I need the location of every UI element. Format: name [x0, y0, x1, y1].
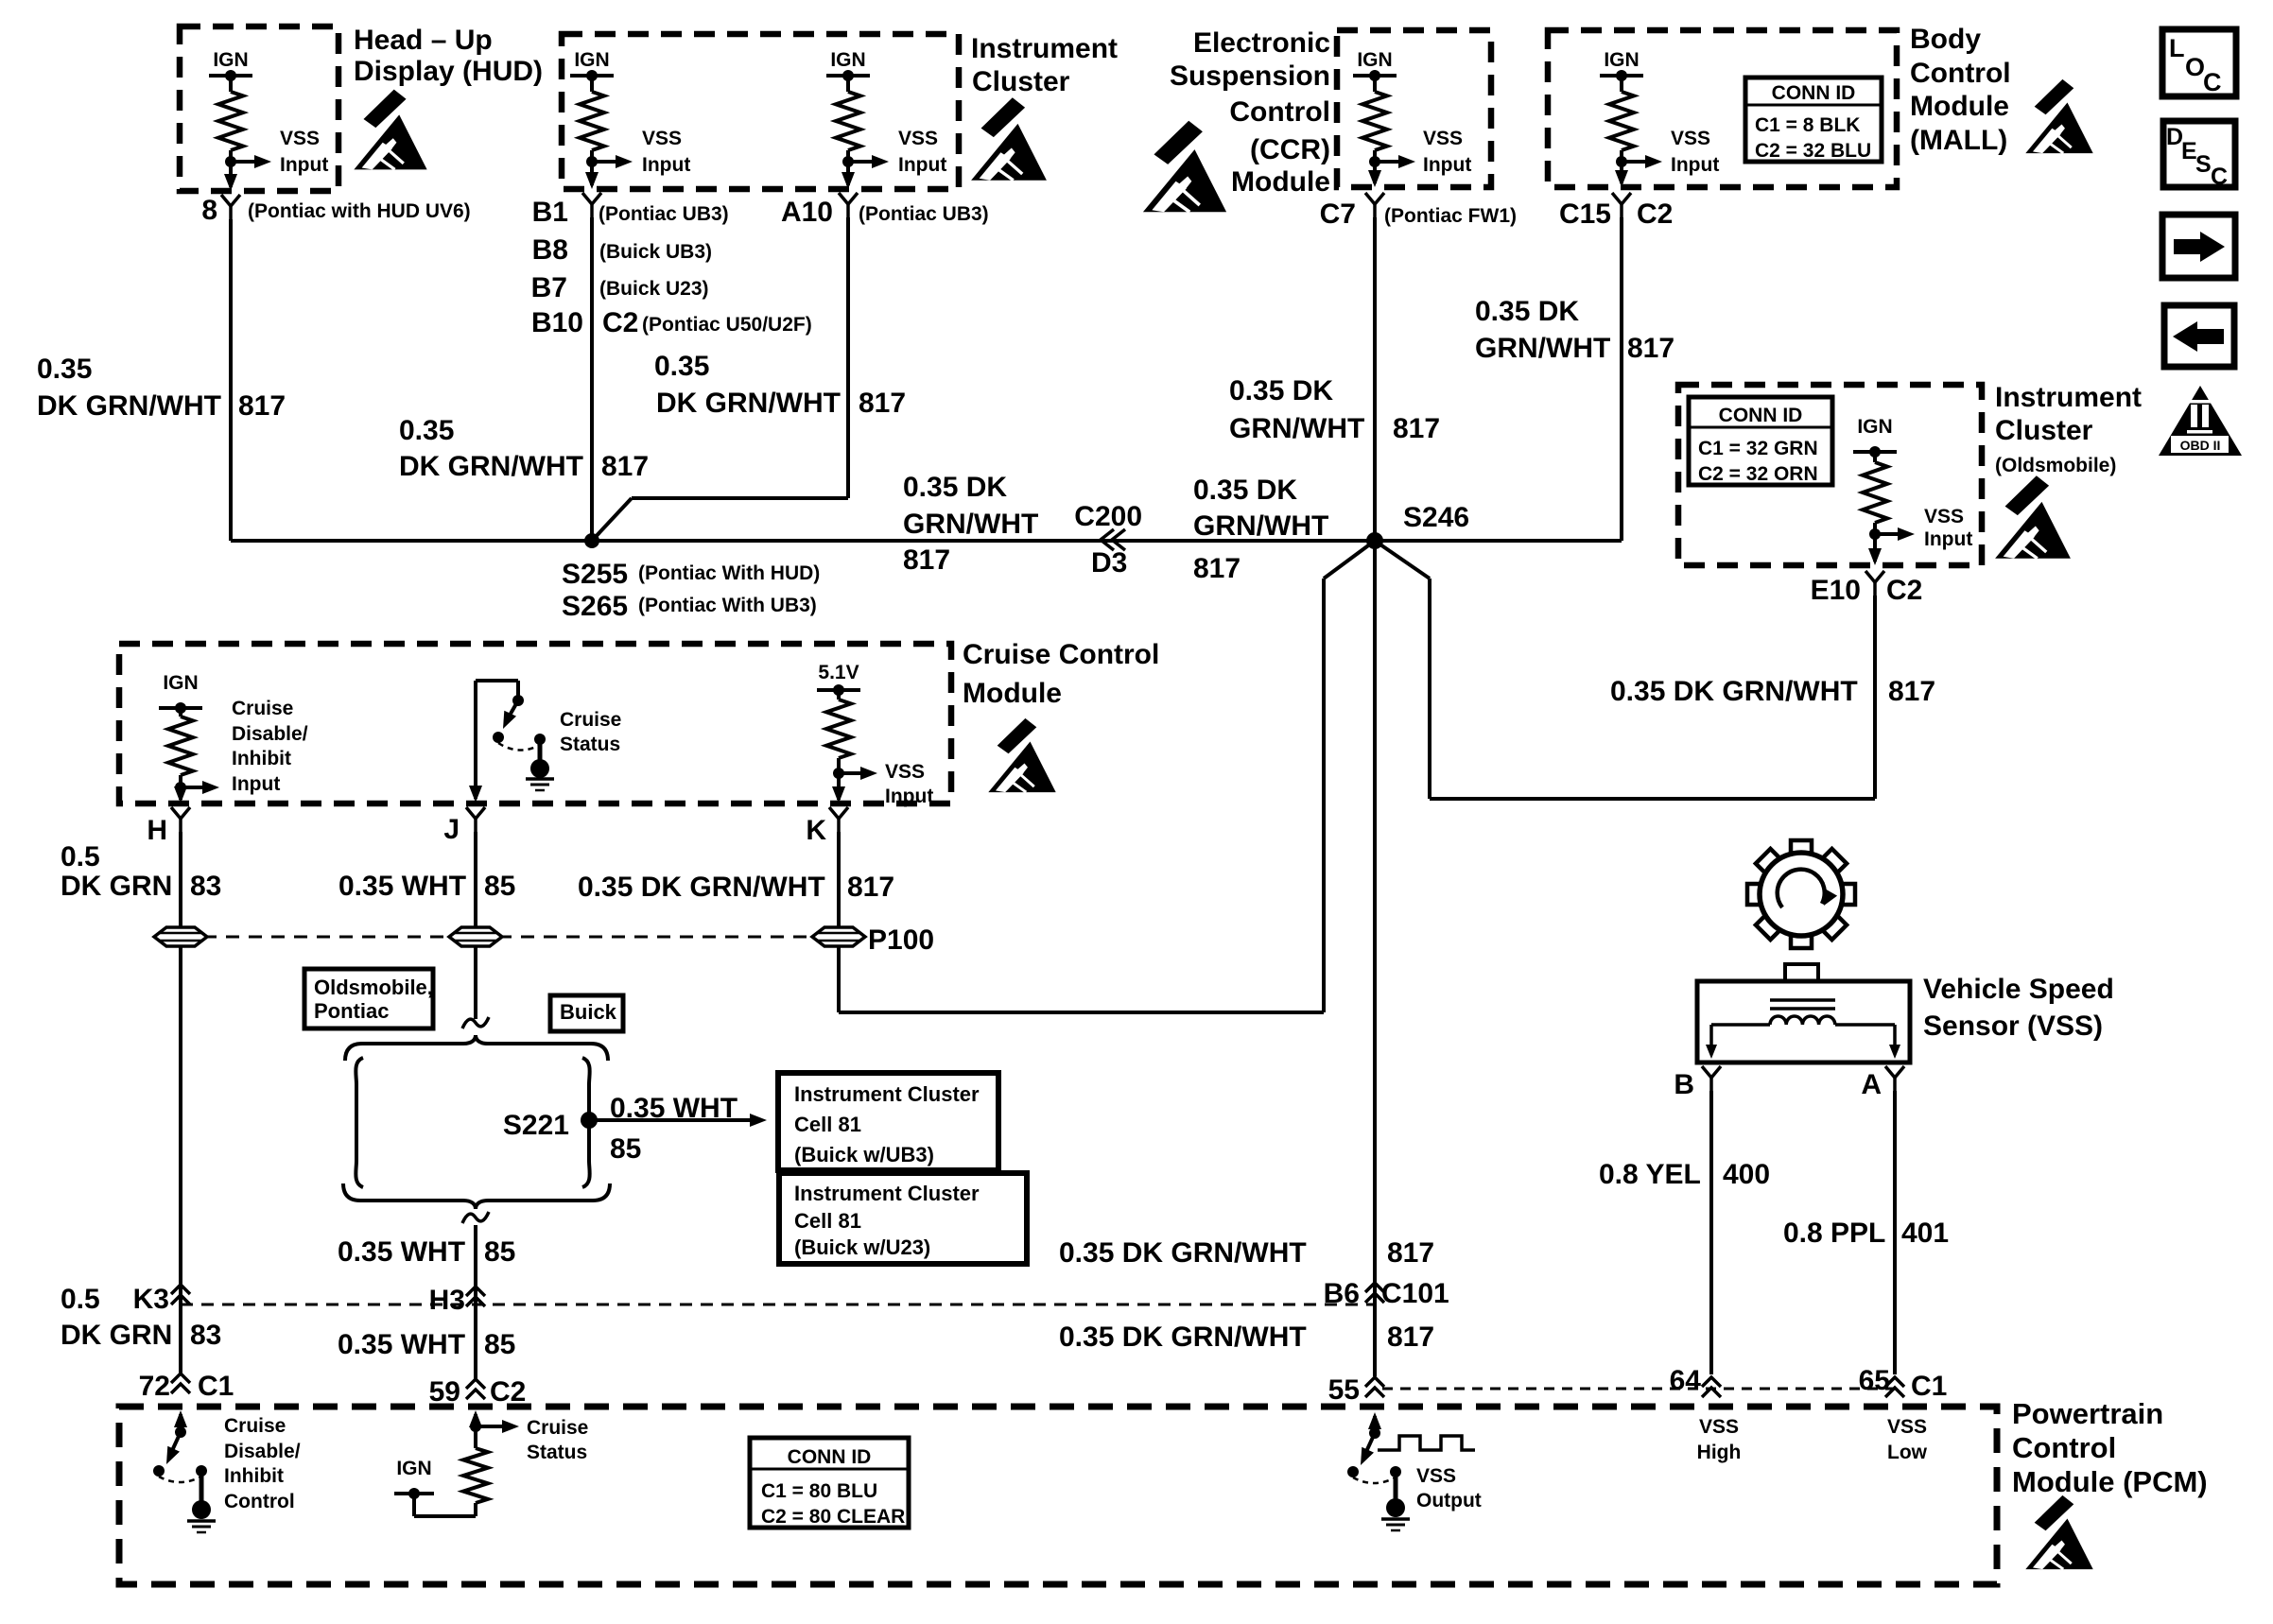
CONN ID table (PCM): C1 = 80 BLU, C2 = 80 CLEAR [750, 1438, 909, 1528]
label box Buick [550, 995, 623, 1031]
svg-text:B6: B6 [1324, 1278, 1360, 1309]
svg-text:72: 72 [139, 1371, 170, 1402]
svg-text:C2: C2 [1637, 199, 1673, 230]
svg-text:Body: Body [1910, 24, 1981, 55]
svg-text:VSS: VSS [1699, 1416, 1739, 1438]
svg-text:H3: H3 [429, 1285, 465, 1316]
svg-text:817: 817 [903, 544, 950, 576]
svg-text:(CCR): (CCR) [1250, 134, 1330, 165]
icon box LOC [2162, 29, 2236, 96]
svg-text:0.35 DK GRN/WHT: 0.35 DK GRN/WHT [578, 872, 825, 903]
svg-text:401: 401 [1901, 1218, 1949, 1249]
svg-text:C1 = 8 BLK: C1 = 8 BLK [1755, 114, 1860, 136]
svg-text:Cruise: Cruise [224, 1415, 286, 1437]
svg-text:Cell 81: Cell 81 [794, 1113, 861, 1136]
module box Electronic Suspension Control (CCR), dashed [1337, 30, 1491, 187]
svg-text:817: 817 [601, 451, 649, 482]
svg-text:C: C [2211, 164, 2228, 190]
svg-text:0.35 DK: 0.35 DK [1475, 296, 1579, 327]
svg-text:C1: C1 [1911, 1371, 1947, 1402]
svg-text:DK GRN: DK GRN [61, 871, 172, 902]
svg-text:Module: Module [1910, 91, 2009, 122]
svg-text:0.8 YEL: 0.8 YEL [1599, 1159, 1701, 1190]
svg-text:Input: Input [232, 773, 280, 795]
ESD symbol (Olds IC) [1995, 475, 2071, 558]
svg-text:(Pontiac UB3): (Pontiac UB3) [599, 203, 729, 225]
ESD symbol (CCM) [988, 718, 1055, 792]
svg-text:(Pontiac With HUD): (Pontiac With HUD) [638, 562, 820, 584]
svg-text:VSS: VSS [1887, 1416, 1927, 1438]
svg-text:Inhibit: Inhibit [224, 1465, 284, 1487]
svg-text:85: 85 [484, 1236, 515, 1268]
label box Oldsmobile, Pontiac [304, 969, 433, 1028]
svg-text:IGN: IGN [213, 49, 248, 71]
icon box arrow left [2164, 305, 2234, 367]
svg-text:C2 = 32 BLU: C2 = 32 BLU [1755, 140, 1871, 162]
svg-text:B7: B7 [531, 272, 567, 303]
square wave symbol (VSS Output) [1378, 1436, 1475, 1450]
brace right column (Buick path) [582, 1058, 590, 1187]
svg-text:Control: Control [224, 1491, 295, 1512]
label box Instrument Cluster Cell 81 (Buick w/UB3) [778, 1073, 998, 1170]
svg-text:S255: S255 [562, 559, 628, 590]
svg-text:C2 = 80 CLEAR: C2 = 80 CLEAR [761, 1506, 905, 1528]
svg-text:C15: C15 [1559, 199, 1611, 230]
svg-text:C2 = 32 ORN: C2 = 32 ORN [1698, 463, 1818, 485]
module box Instrument Cluster (Oldsmobile), dashed [1678, 385, 1982, 565]
svg-text:(Pontiac UB3): (Pontiac UB3) [859, 203, 989, 225]
svg-text:B1: B1 [532, 197, 568, 228]
svg-text:C1 = 80 BLU: C1 = 80 BLU [761, 1480, 877, 1502]
ESD symbol (BCM) [2025, 79, 2092, 153]
svg-text:H: H [147, 815, 167, 846]
svg-text:Instrument: Instrument [1995, 382, 2142, 413]
svg-text:B8: B8 [532, 234, 568, 266]
icon box DESC [2163, 121, 2235, 187]
svg-text:0.35 DK: 0.35 DK [1193, 475, 1297, 506]
svg-text:VSS: VSS [280, 128, 320, 149]
svg-text:Status: Status [527, 1442, 587, 1463]
svg-text:CONN ID: CONN ID [1772, 82, 1856, 104]
wire S246 right branch to E10 (Oldsmobile cluster), 0.35 DK GRN/WHT 817 [1375, 541, 1430, 579]
ESD symbol (PCM) [2025, 1495, 2092, 1569]
svg-text:A10: A10 [781, 197, 833, 228]
svg-text:C200: C200 [1074, 501, 1142, 532]
wire S246 left branch down to P100/K wire [1324, 541, 1375, 579]
svg-text:IGN: IGN [574, 49, 609, 71]
svg-text:Cell 81: Cell 81 [794, 1209, 861, 1233]
svg-text:0.5: 0.5 [61, 1284, 100, 1315]
svg-text:CONN ID: CONN ID [788, 1446, 872, 1468]
svg-text:DK GRN/WHT: DK GRN/WHT [399, 451, 583, 482]
switch Cruise Disable/Inhibit Control inside PCM [174, 1410, 187, 1427]
svg-text:0.35 DK: 0.35 DK [903, 472, 1007, 503]
svg-text:(Buick w/U23): (Buick w/U23) [794, 1235, 930, 1259]
CONN ID table (BCM): C1 = 8 BLK, C2 = 32 BLU [1745, 78, 1882, 162]
svg-text:65: 65 [1859, 1365, 1890, 1396]
svg-text:C: C [2203, 68, 2222, 96]
resistor Cruise Status inside PCM with IGN [469, 1410, 482, 1427]
svg-text:(Pontiac With UB3): (Pontiac With UB3) [638, 595, 817, 616]
svg-text:GRN/WHT: GRN/WHT [1229, 413, 1364, 444]
brace bottom (underbrace) [343, 1183, 610, 1209]
svg-text:Disable/: Disable/ [224, 1441, 301, 1462]
svg-text:Input: Input [1671, 154, 1719, 176]
svg-text:817: 817 [859, 388, 906, 419]
svg-text:0.35 WHT: 0.35 WHT [338, 1329, 465, 1360]
wire pin B1 to S255, 0.35 DK GRN/WHT 817 [590, 217, 594, 541]
svg-text:5.1V: 5.1V [818, 662, 859, 683]
gear reluctor icon (VSS) [1747, 840, 1855, 948]
svg-text:S265: S265 [562, 591, 628, 622]
svg-text:817: 817 [1387, 1237, 1434, 1269]
svg-text:Pontiac: Pontiac [314, 999, 389, 1023]
svg-text:85: 85 [484, 871, 515, 902]
svg-text:Cruise: Cruise [560, 709, 621, 731]
svg-text:L: L [2169, 34, 2185, 62]
svg-text:817: 817 [238, 390, 286, 422]
junction S255/S265 [584, 533, 599, 548]
svg-text:VSS: VSS [1416, 1465, 1456, 1487]
brace top (overbrace) [345, 1035, 608, 1061]
svg-text:817: 817 [1393, 413, 1440, 444]
svg-text:S221: S221 [503, 1110, 569, 1141]
svg-text:Inhibit: Inhibit [232, 748, 291, 769]
svg-text:VSS: VSS [1671, 128, 1710, 149]
svg-text:Module: Module [1231, 166, 1330, 198]
pickup coil inside VSS [1770, 998, 1835, 1002]
svg-text:0.5: 0.5 [61, 841, 100, 872]
svg-text:IGN: IGN [1357, 49, 1392, 71]
svg-text:VSS: VSS [898, 128, 938, 149]
connector C1 dashed pin row 55/64/65 [1382, 1388, 1902, 1391]
svg-text:(Buick UB3): (Buick UB3) [599, 241, 712, 263]
svg-text:IGN: IGN [163, 672, 198, 694]
svg-text:0.35 DK GRN/WHT: 0.35 DK GRN/WHT [1059, 1237, 1307, 1269]
svg-text:0.35 WHT: 0.35 WHT [610, 1093, 737, 1124]
svg-text:C1: C1 [198, 1371, 234, 1402]
connector P100 in-line, dashed tie line [181, 936, 839, 939]
svg-text:Sensor (VSS): Sensor (VSS) [1923, 1011, 2103, 1042]
svg-text:0.35 WHT: 0.35 WHT [338, 1236, 465, 1268]
wire VSS B to PCM 64, 0.8 YEL 400 [1709, 1091, 1713, 1374]
svg-text:Module: Module [963, 678, 1062, 709]
wire pin C7 down through S246 to pin 55, 0.35 DK GRN/WHT 817 [1373, 217, 1377, 1376]
svg-text:(Pontiac with HUD UV6): (Pontiac with HUD UV6) [248, 200, 471, 222]
svg-text:IGN: IGN [830, 49, 865, 71]
icon OBD II triangle [2159, 386, 2242, 456]
svg-text:0.35 DK GRN/WHT: 0.35 DK GRN/WHT [1059, 1322, 1307, 1353]
svg-text:E10: E10 [1811, 575, 1861, 606]
svg-text:Oldsmobile,: Oldsmobile, [314, 976, 433, 999]
icon box arrow right [2162, 215, 2235, 278]
ESD symbol (Instrument Cluster) [971, 97, 1047, 180]
svg-text:Input: Input [642, 154, 690, 176]
svg-text:0.35 DK: 0.35 DK [1229, 375, 1333, 406]
wire VSS A to PCM 65, 0.8 PPL 401 [1893, 1091, 1897, 1374]
svg-text:0.35: 0.35 [654, 351, 709, 382]
svg-text:VSS: VSS [1423, 128, 1463, 149]
svg-text:83: 83 [190, 1320, 221, 1351]
switch VSS Output inside PCM with square wave [1368, 1412, 1381, 1429]
svg-text:Cruise Control: Cruise Control [963, 639, 1159, 670]
svg-text:817: 817 [847, 872, 894, 903]
svg-text:K: K [806, 815, 826, 846]
svg-text:VSS: VSS [885, 761, 925, 783]
module box Head-Up Display (HUD), dashed [180, 26, 338, 191]
svg-text:VSS: VSS [642, 128, 682, 149]
wire break squiggle on J wire [462, 1017, 489, 1028]
switch Cruise Status inside CCM [474, 681, 477, 799]
svg-text:Buick: Buick [560, 1000, 617, 1024]
connector C101 dashed tie line with pins K3 / H3 / B6 [181, 1304, 1375, 1306]
module box Cruise Control Module, dashed [119, 644, 951, 803]
svg-text:Cruise: Cruise [527, 1417, 588, 1439]
svg-text:OBD II: OBD II [2180, 438, 2221, 453]
svg-text:Electronic: Electronic [1193, 27, 1330, 59]
svg-text:Instrument Cluster: Instrument Cluster [794, 1082, 980, 1106]
svg-text:DK GRN/WHT: DK GRN/WHT [656, 388, 841, 419]
svg-text:0.35 DK GRN/WHT: 0.35 DK GRN/WHT [1610, 676, 1858, 707]
svg-text:GRN/WHT: GRN/WHT [1193, 510, 1328, 542]
svg-text:817: 817 [1627, 333, 1674, 364]
svg-text:Powertrain: Powertrain [2012, 1397, 2163, 1430]
svg-text:Low: Low [1887, 1442, 1928, 1463]
svg-text:GRN/WHT: GRN/WHT [903, 509, 1038, 540]
svg-text:CONN ID: CONN ID [1719, 405, 1803, 426]
svg-text:S: S [2195, 151, 2212, 178]
svg-text:0.35: 0.35 [37, 354, 92, 385]
svg-text:Display (HUD): Display (HUD) [354, 56, 543, 87]
svg-text:B: B [1674, 1069, 1694, 1100]
svg-text:S246: S246 [1403, 502, 1469, 533]
brace left column (Oldsmobile/Pontiac path) [356, 1058, 363, 1187]
svg-text:(Pontiac FW1): (Pontiac FW1) [1384, 205, 1517, 227]
svg-text:59: 59 [429, 1376, 460, 1408]
svg-text:DK GRN: DK GRN [61, 1320, 172, 1351]
module box Body Control Module (MALL), dashed [1548, 30, 1897, 187]
svg-text:P100: P100 [868, 924, 934, 956]
svg-text:400: 400 [1723, 1159, 1770, 1190]
svg-text:(Buick U23): (Buick U23) [599, 278, 709, 300]
svg-text:Suspension: Suspension [1170, 60, 1330, 92]
wire pin 8 to S255 bus, 0.35 DK GRN/WHT 817 [229, 219, 233, 541]
svg-text:Cluster: Cluster [1995, 415, 2093, 446]
label box Instrument Cluster Cell 81 (Buick w/U23) [779, 1173, 1027, 1264]
svg-text:64: 64 [1670, 1365, 1702, 1396]
wire S221 to Instrument Cluster Cell 81, 0.35 WHT 85 [589, 1118, 752, 1122]
wire break squiggle below underbrace [462, 1212, 489, 1223]
svg-text:Input: Input [1423, 154, 1471, 176]
svg-text:0.35 WHT: 0.35 WHT [338, 871, 466, 902]
ESD symbol (CCR) [1143, 121, 1226, 213]
svg-text:Control: Control [1229, 96, 1330, 128]
svg-text:VSS: VSS [1924, 506, 1964, 527]
svg-text:817: 817 [1193, 553, 1241, 584]
connector tab between gear and VSS body [1785, 964, 1818, 981]
svg-text:0.35: 0.35 [399, 415, 454, 446]
svg-text:High: High [1697, 1442, 1742, 1463]
svg-text:Disable/: Disable/ [232, 723, 308, 745]
svg-text:J: J [443, 814, 460, 845]
svg-text:IGN: IGN [1857, 416, 1892, 438]
svg-text:DK GRN/WHT: DK GRN/WHT [37, 390, 221, 422]
svg-text:Output: Output [1416, 1490, 1482, 1512]
svg-text:85: 85 [484, 1329, 515, 1360]
connector C200 pin D3 on bus [1101, 529, 1114, 550]
Vehicle Speed Sensor body box [1697, 981, 1910, 1063]
wire pin H to pin 72, 0.5 DK GRN 83 [179, 832, 182, 1373]
svg-text:C7: C7 [1320, 199, 1356, 230]
CONN ID table (Olds IC): C1 = 32 GRN, C2 = 32 ORN [1689, 397, 1832, 485]
svg-text:C2: C2 [490, 1376, 526, 1408]
svg-text:Input: Input [1924, 528, 1972, 550]
wire pin A10 to S255, 0.35 DK GRN/WHT 817 [846, 217, 850, 498]
svg-text:IGN: IGN [1604, 49, 1639, 71]
junction S246 [1366, 532, 1383, 549]
svg-text:C2: C2 [1886, 575, 1922, 606]
svg-text:Status: Status [560, 734, 620, 755]
svg-text:GRN/WHT: GRN/WHT [1475, 333, 1610, 364]
svg-text:K3: K3 [133, 1284, 169, 1315]
svg-text:Module (PCM): Module (PCM) [2012, 1465, 2208, 1498]
svg-text:85: 85 [610, 1133, 641, 1165]
wire pin K to S246 left branch, 0.35 DK GRN/WHT 817 [837, 832, 841, 1012]
svg-text:IGN: IGN [396, 1458, 431, 1479]
svg-text:D3: D3 [1091, 547, 1127, 579]
svg-text:(MALL): (MALL) [1910, 125, 2007, 156]
svg-text:817: 817 [1888, 676, 1935, 707]
svg-text:55: 55 [1328, 1374, 1360, 1406]
module box Instrument Cluster (Pontiac/Buick), dashed [562, 34, 959, 189]
svg-text:Control: Control [2012, 1431, 2116, 1464]
svg-text:Vehicle Speed: Vehicle Speed [1923, 974, 2114, 1005]
svg-text:817: 817 [1387, 1322, 1434, 1353]
svg-text:8: 8 [201, 195, 217, 226]
module box Powertrain Control Module (PCM), dashed [119, 1407, 1997, 1584]
svg-text:A: A [1861, 1069, 1882, 1100]
svg-text:Control: Control [1910, 58, 2011, 89]
ESD symbol (HUD) [354, 90, 426, 170]
wire main horizontal bus 817 [231, 539, 1622, 543]
svg-text:Instrument: Instrument [971, 33, 1118, 64]
svg-text:83: 83 [190, 871, 221, 902]
junction S221 on Buick path [581, 1112, 598, 1129]
wire pin J to splice braces, 0.35 WHT 85 [474, 832, 477, 1019]
svg-text:C1 = 32 GRN: C1 = 32 GRN [1698, 438, 1818, 459]
svg-text:Input: Input [280, 154, 328, 176]
wire pin C15 to bus corner, 0.35 DK GRN/WHT 817 [1620, 217, 1623, 541]
svg-text:Instrument Cluster: Instrument Cluster [794, 1182, 980, 1205]
svg-text:(Buick w/UB3): (Buick w/UB3) [794, 1143, 934, 1166]
svg-text:Head – Up: Head – Up [354, 25, 493, 56]
svg-text:Cruise: Cruise [232, 698, 293, 719]
svg-text:Input: Input [898, 154, 946, 176]
svg-text:C101: C101 [1381, 1278, 1449, 1309]
svg-text:(Pontiac U50/U2F): (Pontiac U50/U2F) [642, 314, 812, 336]
svg-text:Input: Input [885, 786, 933, 807]
wire brace to pin 59, 0.35 WHT 85 [474, 1225, 477, 1379]
svg-text:B10: B10 [531, 307, 583, 338]
svg-text:O: O [2185, 53, 2205, 81]
svg-text:C2: C2 [602, 307, 638, 338]
svg-text:Cluster: Cluster [972, 66, 1070, 97]
svg-text:0.8 PPL: 0.8 PPL [1783, 1218, 1885, 1249]
svg-text:(Oldsmobile): (Oldsmobile) [1995, 455, 2116, 476]
